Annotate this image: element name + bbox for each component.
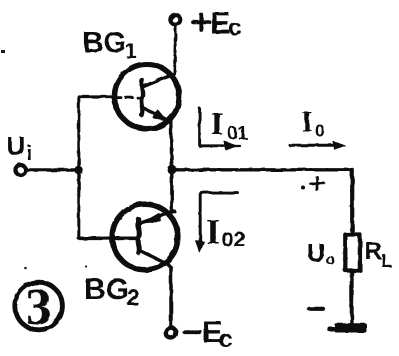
svg-text:U: U [307,240,325,268]
svg-text:1: 1 [125,40,137,63]
scan specks [1,50,87,269]
minus sign output [309,307,323,311]
wire vertical input bus [77,97,80,239]
svg-text:R: R [365,238,383,265]
svg-text:BG: BG [83,27,127,59]
figure number 3 circle [15,282,63,330]
dot before plus [301,186,305,190]
wire BG1 emitter to output node [171,122,172,170]
node output junction [167,165,176,174]
transistor BG1 [115,64,180,129]
current indicator I0 arrow [290,141,345,149]
wire BG1 collector to +Ec terminal [175,26,176,73]
svg-text:L: L [381,251,392,271]
current indicator I02 [196,193,238,253]
svg-text:2: 2 [127,284,140,310]
current indicator I01 [200,109,240,150]
resistor RL [345,235,360,271]
transistor BG2 [112,204,178,270]
wire BG1 base [79,95,114,98]
svg-text:i: i [27,143,33,165]
svg-text:3: 3 [26,279,52,336]
wire output node to BG2 emitter [170,170,173,213]
svg-text:BG: BG [84,273,129,306]
svg-text:c: c [219,325,233,353]
svg-text:02: 02 [222,228,246,252]
svg-text:I: I [302,107,313,138]
terminal +Ec [170,15,180,25]
svg-text:0: 0 [315,121,325,141]
minus sign of -Ec label [185,330,201,334]
svg-text:c: c [229,15,242,42]
terminal -Ec [166,328,176,338]
wire BG2 collector to -Ec terminal [167,264,171,327]
wire output horizontal [172,168,352,171]
plus sign of +Ec label [193,15,210,31]
wire down to resistor RL [350,170,354,235]
wire BG2 base [79,236,137,240]
wire resistor to ground [350,270,354,324]
svg-text:I: I [206,212,220,252]
wire input to junction [27,168,78,172]
input terminal Ui [15,165,25,175]
svg-text:U: U [7,131,26,161]
node junction input bus [74,166,82,174]
svg-text:I: I [211,107,224,143]
ground [328,323,367,332]
svg-text:01: 01 [227,122,248,143]
plus sign output [310,177,324,190]
svg-text:o: o [326,252,336,269]
